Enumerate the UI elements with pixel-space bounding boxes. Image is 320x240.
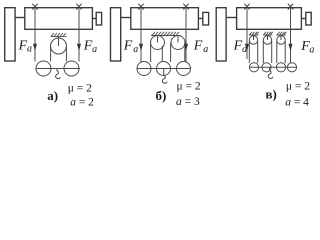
top fixed pulley A	[51, 38, 67, 54]
beam V	[237, 8, 302, 30]
lower pulley V4	[287, 63, 296, 72]
X mark left B	[138, 4, 143, 10]
rope strand V2	[248, 41, 250, 63]
rope right B	[185, 9, 187, 63]
lower pulley V2	[262, 63, 271, 72]
svg-text:a: a	[309, 45, 314, 56]
svg-text:F: F	[233, 38, 243, 53]
wall bracket V	[216, 8, 226, 61]
hook V	[268, 67, 273, 78]
svg-text:a: a	[242, 44, 247, 55]
connector rod V	[227, 17, 237, 19]
svg-text:a: a	[203, 44, 208, 55]
hook A	[56, 69, 61, 79]
handle stub B	[198, 18, 202, 20]
rope strand V3	[257, 41, 259, 63]
arrow Fa right V	[289, 44, 293, 51]
rope right V	[290, 9, 292, 63]
lower pulley B2	[157, 62, 171, 76]
upper pulley B2	[171, 36, 185, 50]
svg-text:a = 4: a = 4	[285, 97, 309, 109]
arrow Fa right B	[184, 44, 188, 51]
svg-text:a = 2: a = 2	[70, 97, 94, 109]
svg-text:μ = 2: μ = 2	[177, 81, 201, 93]
block bar A	[36, 68, 80, 70]
svg-text:а): а)	[47, 88, 58, 103]
rope inner right A	[65, 46, 67, 62]
hatch V2	[263, 32, 273, 35]
X mark left V	[244, 4, 249, 10]
hook B	[162, 69, 167, 83]
svg-text:a = 3: a = 3	[176, 96, 200, 108]
rope strand V7	[284, 41, 286, 63]
arrow Fa left A	[33, 44, 37, 51]
rope right A	[78, 9, 80, 62]
svg-text:a: a	[133, 44, 138, 55]
X mark right V	[288, 4, 293, 10]
rope left V	[246, 9, 248, 60]
svg-text:F: F	[123, 38, 133, 53]
axle stub upper pulley B1	[157, 36, 159, 43]
upper pulley V3	[277, 36, 285, 44]
handle stub V	[301, 18, 305, 20]
wall bracket A	[5, 8, 15, 61]
beam A	[25, 8, 93, 30]
svg-text:F: F	[193, 38, 203, 53]
axle stub upper pulley V3	[280, 35, 282, 40]
rope strand B4	[170, 43, 172, 63]
X mark left A	[32, 4, 37, 10]
wall bracket B	[111, 8, 121, 61]
X mark right B	[183, 4, 188, 10]
upper pulley B1	[151, 36, 165, 50]
svg-text:в): в)	[266, 87, 277, 102]
lower pulley V1	[249, 63, 258, 72]
rope left B	[140, 9, 142, 63]
connector rod B	[121, 17, 131, 19]
svg-text:μ = 2: μ = 2	[286, 80, 310, 92]
rope strand B2	[150, 43, 152, 63]
rope strand V5	[271, 41, 273, 63]
hatch V3	[276, 32, 286, 35]
arrow Fa left V	[245, 44, 249, 51]
lower pulley B3	[177, 62, 191, 76]
rope strand B5	[184, 43, 186, 63]
handle stub A	[92, 18, 96, 20]
handle A	[96, 12, 101, 25]
arrow Fa left B	[139, 44, 143, 51]
rope strand V6	[276, 41, 278, 63]
upper pulley V1	[249, 36, 257, 44]
lower pulley V3	[276, 63, 285, 72]
ceiling hatch A	[51, 33, 67, 37]
rope left A	[34, 9, 36, 62]
ceiling hatch B	[151, 32, 181, 36]
beam B	[131, 8, 199, 30]
X mark right A	[76, 4, 81, 10]
svg-text:a: a	[27, 44, 32, 55]
arrow Fa right A	[77, 44, 81, 51]
movable pulley A1	[36, 61, 51, 76]
movable pulley A2	[64, 61, 79, 76]
rope strand V4	[262, 41, 264, 63]
rope strand B3	[161, 46, 163, 62]
block bar V	[249, 66, 296, 68]
rope inner left A	[50, 46, 52, 62]
lower pulley B1	[137, 62, 151, 76]
svg-text:μ = 2: μ = 2	[68, 82, 92, 94]
axle stub upper pulley V2	[267, 35, 269, 40]
connector rod A	[15, 17, 25, 19]
axle stub upper pulley B2	[177, 36, 179, 43]
svg-text:a: a	[92, 44, 97, 55]
axle stub upper pulley V1	[253, 35, 255, 40]
hatch V1	[249, 32, 259, 35]
handle V	[306, 12, 311, 25]
svg-text:б): б)	[156, 88, 167, 103]
block bar B	[137, 68, 191, 70]
upper pulley V2	[263, 36, 271, 44]
axle stub top pulley A	[58, 37, 60, 46]
handle B	[203, 12, 209, 25]
